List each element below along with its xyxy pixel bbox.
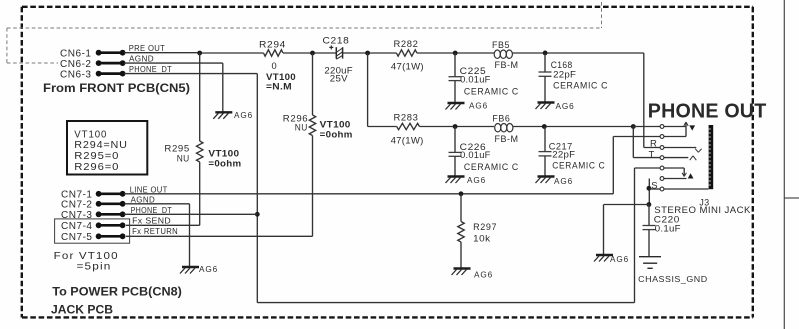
wire down to tip contact — [632, 127, 634, 158]
resistor R295 chain wire — [199, 53, 201, 141]
capacitor C220 — [643, 205, 656, 257]
connector pin CN6-3 — [96, 71, 126, 77]
svg-text:CERAMIC C: CERAMIC C — [552, 160, 605, 170]
ground AG6 at C225 — [446, 102, 489, 111]
wire LINE OUT from CN7-1 — [124, 193, 613, 195]
svg-text:AG6: AG6 — [556, 102, 575, 111]
connector pin CN7-2 — [96, 201, 126, 207]
JACK PCB dashed boundary (top) — [22, 6, 753, 8]
shield dashed line (vertical right at x=601) — [601, 2, 603, 28]
svg-text:R294: R294 — [259, 40, 286, 50]
svg-text:CERAMIC C: CERAMIC C — [553, 81, 608, 91]
wire R296 down to Fx RETURN — [312, 136, 314, 237]
svg-text:CN6-1: CN6-1 — [60, 49, 92, 60]
svg-text:22pF: 22pF — [553, 70, 576, 80]
wire AG6 branch down — [603, 205, 605, 256]
ferrite bead FB6 — [495, 124, 513, 132]
wire into jack row2 contact — [613, 136, 660, 138]
jack contact circle row6 — [660, 177, 664, 181]
JACK PCB dashed boundary (bottom) — [22, 316, 753, 318]
svg-text:FB5: FB5 — [492, 40, 510, 50]
node junction at R297 — [459, 191, 464, 196]
connector pin CN6-2 — [96, 60, 126, 66]
jack ring contact arm — [664, 148, 702, 153]
wire LINE OUT up to jack row2 — [612, 137, 614, 194]
svg-text:FB-M: FB-M — [495, 134, 519, 144]
wire AGND down to ground — [222, 63, 224, 112]
svg-text:AG6: AG6 — [469, 102, 488, 111]
svg-text:PHONE_DT: PHONE_DT — [129, 65, 172, 74]
svg-text:S: S — [651, 181, 657, 192]
jack contact circle row3 ring — [660, 146, 664, 150]
svg-text:AG6: AG6 — [199, 265, 218, 274]
connector pin CN7-5 — [96, 233, 126, 239]
svg-text:FB6: FB6 — [492, 113, 510, 123]
shield dashed line (vertical left) — [6, 28, 8, 63]
wire R295 down to Fx SEND — [199, 162, 201, 225]
capacitor C168 — [539, 53, 552, 103]
wire C218 to R282 — [343, 52, 397, 54]
ferrite bead FB5 — [494, 50, 512, 58]
node junction at R295 tap — [197, 51, 202, 56]
jack contact circle row1 — [660, 125, 664, 129]
svg-text:0.1uF: 0.1uF — [655, 224, 681, 234]
caption For VT100 =5pin — [54, 251, 119, 272]
svg-text:R283: R283 — [394, 113, 419, 123]
svg-text:PHONE_DT: PHONE_DT — [131, 206, 173, 215]
resistor R282 — [396, 50, 417, 56]
actuation triangle at row5-6 switch — [688, 173, 694, 178]
svg-text:25V: 25V — [330, 74, 349, 84]
svg-text:FB-M: FB-M — [495, 60, 519, 70]
wire R283 to FB6 — [420, 126, 495, 128]
svg-text:STEREO MINI JACK: STEREO MINI JACK — [654, 205, 751, 215]
jack contact circle row4 tip — [660, 156, 664, 160]
svg-text:AG6: AG6 — [610, 255, 629, 264]
svg-text:CN7-2: CN7-2 — [61, 199, 93, 210]
svg-text:47(1W): 47(1W) — [391, 62, 424, 72]
note VT100 =0ohm for R295 — [208, 149, 241, 169]
jack switch arm row2 with up arrow — [664, 122, 688, 137]
jack contact circle row7 sleeve — [660, 187, 664, 191]
wire FB5 to jack R contact branch — [513, 52, 644, 54]
wire R294 to C218 — [283, 52, 336, 54]
node junction at C220 top — [647, 202, 652, 207]
shield dashed line (horizontal upper) — [7, 27, 602, 29]
ground AG6 at sleeve branch — [594, 255, 629, 264]
resistor R296 — [309, 115, 315, 136]
svg-text:R282: R282 — [394, 39, 419, 49]
jack detect contact arm row5 with down arrow — [664, 168, 687, 177]
wire R282 to FB5 — [417, 52, 494, 54]
node junction at sleeve — [647, 186, 652, 191]
svg-text:R295=0: R295=0 — [74, 151, 119, 162]
svg-text:CN7-5: CN7-5 — [61, 232, 93, 243]
actuation triangle at row1-2 switch — [689, 125, 695, 130]
svg-text:CERAMIC C: CERAMIC C — [464, 162, 519, 172]
note VT100 =N.M for R294 — [266, 72, 296, 92]
chassis ground symbol — [639, 257, 661, 269]
wire PHONE_DT from CN6-3 — [124, 73, 257, 75]
jack switch arm row6 — [664, 178, 687, 180]
capacitor C218 (polarized, hatched) — [329, 45, 342, 59]
svg-text:Fx SEND: Fx SEND — [132, 217, 171, 226]
adjacent page tick — [784, 197, 799, 199]
node junction at jack branch — [631, 124, 636, 129]
wire PHONE_DT from CN7-3 — [124, 213, 257, 215]
svg-text:LINE OUT: LINE OUT — [130, 185, 168, 194]
svg-text:CHASSIS_GND: CHASSIS_GND — [638, 274, 708, 284]
note VT100 =0ohm for R296 — [320, 120, 353, 140]
wire AGND down to ground — [189, 204, 191, 267]
wire PHONE_DT down — [256, 74, 258, 303]
svg-text:CN7-4: CN7-4 — [61, 221, 93, 232]
connector pin CN7-1 — [96, 191, 126, 197]
svg-text:Fx RETURN: Fx RETURN — [132, 227, 178, 236]
wire sleeve row6 down — [648, 179, 650, 205]
wire to R283 — [368, 126, 397, 128]
wire down to ring contact — [643, 53, 645, 148]
wire into jack row1 contact — [633, 126, 660, 128]
wire PRE OUT from CN6-1 to R294 — [124, 52, 200, 54]
node junction PHONE_DT at CN7-3 — [255, 212, 260, 217]
jack tip contact arm — [664, 156, 696, 160]
svg-text:From FRONT PCB(CN5): From FRONT PCB(CN5) — [43, 81, 190, 95]
wire AGND from CN7-2 — [124, 203, 190, 205]
node junction feed to R283 branch — [365, 51, 370, 56]
svg-text:PRE OUT: PRE OUT — [129, 44, 166, 53]
svg-text:R296=0: R296=0 — [74, 162, 119, 173]
node junction at R296 tap — [310, 51, 315, 56]
svg-text:22pF: 22pF — [552, 149, 575, 159]
svg-text:CN6-2: CN6-2 — [60, 59, 92, 70]
jack sleeve contact arm row7 — [664, 188, 709, 190]
svg-text:0: 0 — [272, 61, 277, 71]
svg-text:VT100: VT100 — [320, 120, 351, 130]
wire FB6 to jack tip branch — [513, 126, 633, 128]
JACK PCB dashed boundary (left) — [21, 7, 23, 318]
wire R297 to ground — [460, 242, 462, 269]
wire PHONE_DT bottom rail — [257, 302, 634, 304]
svg-text:AGND: AGND — [129, 55, 154, 64]
svg-text:C168: C168 — [551, 60, 573, 70]
node junction at C217 — [542, 124, 547, 129]
node junction at C226 — [453, 124, 458, 129]
connector pin CN7-3 — [96, 211, 126, 217]
node junction at C225 — [453, 51, 458, 56]
svg-text:PHONE OUT: PHONE OUT — [648, 99, 767, 122]
resistor R283 — [397, 123, 420, 129]
resistor R296 chain wire — [312, 53, 314, 115]
svg-text:R: R — [650, 138, 657, 149]
svg-text:R295: R295 — [164, 144, 190, 154]
wire into tip contact row — [633, 157, 660, 159]
wire Fx SEND to CN7-4 — [126, 224, 200, 226]
svg-text:NU: NU — [295, 123, 308, 133]
wire into ring contact row — [644, 147, 661, 149]
svg-text:=0ohm: =0ohm — [320, 130, 353, 140]
svg-text:AGND: AGND — [131, 195, 156, 204]
svg-text:AG6: AG6 — [474, 271, 493, 280]
wire Fx RETURN to CN7-5 — [126, 235, 313, 237]
ground AG6 at CN7 AGND — [180, 265, 218, 274]
jack contact circle row2 — [660, 135, 664, 139]
svg-text:NU: NU — [177, 153, 190, 163]
jack switch arm row1 — [664, 126, 686, 128]
svg-text:VT100: VT100 — [208, 149, 239, 159]
svg-text:=5pin: =5pin — [77, 261, 112, 272]
svg-text:JACK PCB: JACK PCB — [51, 303, 113, 317]
svg-text:AG6: AG6 — [554, 177, 573, 186]
svg-text:C218: C218 — [323, 35, 350, 45]
svg-text:T: T — [649, 149, 655, 160]
wire AG6 branch from sleeve — [604, 204, 649, 206]
wire branch down to R283 — [367, 53, 369, 127]
JACK PCB dashed boundary (right) — [752, 7, 754, 318]
svg-text:10k: 10k — [473, 234, 491, 244]
svg-text:AG6: AG6 — [467, 176, 486, 185]
info box VT100 settings — [67, 121, 147, 175]
svg-text:To POWER PCB(CN8): To POWER PCB(CN8) — [52, 285, 182, 299]
svg-text:0.01uF: 0.01uF — [460, 75, 491, 85]
svg-text:47(1W): 47(1W) — [391, 136, 424, 146]
capacitor C226 — [449, 127, 462, 177]
shield dashed line to CN6-2 — [7, 62, 58, 64]
ground AG6 at CN6 AGND — [213, 111, 253, 120]
adjacent page border line — [783, 0, 785, 329]
resistor R295 — [197, 141, 203, 162]
ground AG6 at R297 — [452, 269, 494, 280]
connector pin CN7-4 — [96, 222, 126, 228]
wire to sleeve row7 — [649, 188, 660, 190]
capacitor C217 — [539, 127, 552, 177]
svg-text:VT100: VT100 — [266, 72, 296, 82]
svg-text:CERAMIC C: CERAMIC C — [464, 86, 519, 96]
resistor R294 — [264, 50, 284, 56]
wire into detect contact row — [635, 167, 661, 169]
node junction at C168 — [543, 51, 548, 56]
ground AG6 at C217 — [536, 177, 574, 187]
capacitor C225 — [449, 53, 462, 103]
jack contact circle row5 detect — [660, 166, 664, 170]
resistor R297 — [458, 222, 464, 243]
wire PHONE_DT up to detect contact — [634, 168, 636, 303]
wire AGND from CN6-2 — [124, 62, 223, 64]
resistor R297 wire — [460, 194, 462, 222]
svg-text:=N.M: =N.M — [266, 82, 292, 92]
connector pin CN6-1 — [96, 50, 126, 56]
svg-text:=0ohm: =0ohm — [208, 159, 241, 169]
svg-text:CN6-3: CN6-3 — [60, 70, 92, 81]
svg-text:R294=NU: R294=NU — [74, 140, 128, 151]
svg-text:VT100: VT100 — [74, 129, 107, 140]
ground AG6 at C168 — [536, 102, 575, 111]
svg-text:0.01uF: 0.01uF — [460, 150, 491, 160]
svg-text:AG6: AG6 — [234, 111, 253, 120]
box around CN7-4 CN7-5 — [55, 219, 130, 243]
svg-text:R297: R297 — [473, 222, 497, 232]
ground AG6 at C226 — [446, 176, 487, 185]
jack plug body bar — [709, 125, 714, 189]
value 220uF 25V — [324, 65, 353, 83]
